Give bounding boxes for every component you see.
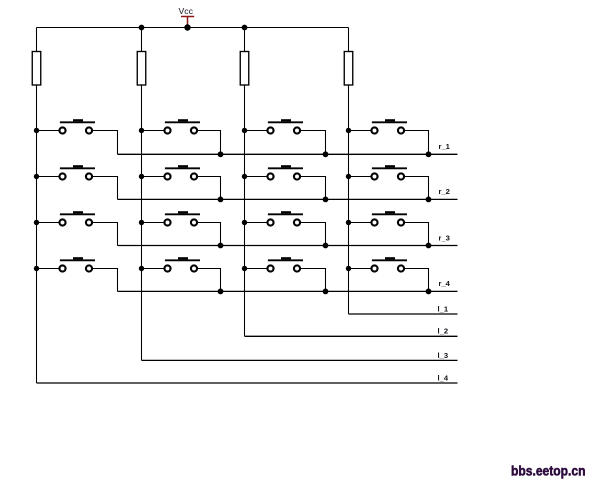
pushbutton S15 (row 4, col 3)	[242, 257, 326, 291]
net r_4 wire	[118, 290, 458, 292]
junction rail-Vcc	[184, 24, 190, 30]
pin 2 of S11	[294, 219, 300, 225]
actuator bar of S6	[165, 167, 200, 169]
resistor R3	[240, 52, 249, 86]
pin 2 of S7	[294, 173, 300, 179]
junction col4-S16	[346, 266, 351, 271]
plunger of S3	[281, 119, 291, 121]
actuator bar of S9	[60, 213, 95, 215]
plunger of S16	[385, 257, 395, 259]
wire S4 right lead to net r_1	[404, 131, 428, 155]
svg-text:Vcc: Vcc	[179, 6, 194, 16]
plunger of S1	[73, 119, 83, 121]
pin 2 of S13	[86, 265, 92, 271]
svg-text:l_4: l_4	[438, 373, 449, 382]
wire S7 left lead	[245, 176, 268, 178]
pushbutton S6 (row 2, col 2)	[139, 165, 221, 199]
pin 1 of S12	[371, 219, 377, 225]
junction r_3 col4 drop	[426, 243, 432, 249]
plunger of S5	[73, 165, 83, 167]
junction r_1 col3 drop	[323, 151, 329, 157]
junction col1-S9	[34, 220, 39, 225]
junction r_2 col4 drop	[426, 197, 432, 203]
wire S3 right lead to net r_1	[300, 131, 325, 155]
pin 1 of S8	[371, 173, 377, 179]
pushbutton S9 (row 3, col 1)	[34, 211, 118, 245]
pushbutton S12 (row 3, col 4)	[346, 211, 429, 245]
actuator bar of S7	[268, 167, 303, 169]
wire S8 left lead	[349, 176, 372, 178]
pin 1 of S1	[59, 127, 65, 133]
junction r_2 col3 drop	[323, 197, 329, 203]
wire S16 left lead	[349, 268, 372, 270]
plunger of S13	[73, 257, 83, 259]
junction col4-S4	[346, 128, 351, 133]
pin 2 of S3	[294, 127, 300, 133]
junction col2-S6	[139, 174, 144, 179]
actuator bar of S14	[165, 259, 200, 261]
junction col3-S3	[242, 128, 247, 133]
pin 1 of S15	[267, 265, 273, 271]
plunger of S4	[385, 119, 395, 121]
pin 2 of S1	[86, 127, 92, 133]
pin 2 of S15	[294, 265, 300, 271]
actuator bar of S3	[268, 121, 303, 123]
actuator bar of S11	[268, 213, 303, 215]
pin 1 of S9	[59, 219, 65, 225]
svg-text:r_4: r_4	[439, 279, 451, 288]
pin 1 of S13	[59, 265, 65, 271]
junction col2-S10	[139, 220, 144, 225]
actuator bar of S2	[165, 121, 200, 123]
net l_4 wire	[37, 382, 458, 384]
wire column 1 (rail to l_4)	[36, 28, 38, 384]
pin 1 of S3	[267, 127, 273, 133]
actuator bar of S1	[60, 121, 95, 123]
pin 1 of S2	[164, 127, 170, 133]
wire S5 left lead	[37, 176, 60, 178]
pin 2 of S10	[191, 219, 197, 225]
actuator bar of S8	[372, 167, 407, 169]
svg-text:l_3: l_3	[438, 351, 449, 360]
wire S4 left lead	[349, 130, 372, 132]
junction col2-S14	[139, 266, 144, 271]
wire S13 right lead to net r_4	[92, 269, 117, 292]
actuator bar of S15	[268, 259, 303, 261]
junction col3-S11	[242, 220, 247, 225]
junction r_4 col2 drop	[218, 289, 224, 295]
plunger of S12	[385, 211, 395, 213]
plunger of S9	[73, 211, 83, 213]
wire S14 left lead	[142, 268, 165, 270]
pin 2 of S8	[398, 173, 404, 179]
pin 1 of S7	[267, 173, 273, 179]
junction r_3 col2 drop	[218, 243, 224, 249]
actuator bar of S12	[372, 213, 407, 215]
pin 1 of S10	[164, 219, 170, 225]
wire S11 left lead	[245, 222, 268, 224]
pushbutton S10 (row 3, col 2)	[139, 211, 221, 245]
pushbutton S2 (row 1, col 2)	[139, 119, 221, 154]
actuator bar of S16	[372, 259, 407, 261]
pin 1 of S4	[371, 127, 377, 133]
net l_2 wire	[245, 335, 458, 337]
svg-text:l_1: l_1	[438, 304, 449, 313]
pin 2 of S9	[86, 219, 92, 225]
plunger of S11	[281, 211, 291, 213]
wire S15 right lead to net r_4	[300, 269, 325, 292]
svg-text:r_3: r_3	[439, 233, 450, 242]
junction r_4 col3 drop	[323, 289, 329, 295]
pin 2 of S5	[86, 173, 92, 179]
resistor R2	[137, 52, 146, 86]
wire column 3 (rail to l_2)	[244, 28, 246, 337]
wire S10 right lead to net r_3	[197, 223, 220, 246]
wire S1 left lead	[37, 130, 60, 132]
pin 1 of S16	[371, 265, 377, 271]
pin 2 of S14	[191, 265, 197, 271]
wire S1 right lead to net r_1	[92, 131, 117, 155]
wire S11 right lead to net r_3	[300, 223, 325, 246]
plunger of S7	[281, 165, 291, 167]
pushbutton S14 (row 4, col 2)	[139, 257, 221, 291]
net l_1 wire	[349, 313, 458, 315]
pin 1 of S14	[164, 265, 170, 271]
svg-text:r_1: r_1	[439, 142, 451, 151]
junction rail-col3	[242, 25, 248, 31]
actuator bar of S13	[60, 259, 95, 261]
wire S6 right lead to net r_2	[197, 177, 220, 200]
power symbol Vcc	[179, 6, 195, 27]
net r_3 wire	[118, 245, 458, 247]
plunger of S2	[178, 119, 188, 121]
wire S13 left lead	[37, 268, 60, 270]
pushbutton S16 (row 4, col 4)	[346, 257, 429, 291]
svg-text:bbs.eetop.cn: bbs.eetop.cn	[511, 463, 586, 479]
net r_1 wire	[118, 153, 458, 155]
pin 2 of S6	[191, 173, 197, 179]
junction col3-S15	[242, 266, 247, 271]
junction col1-S1	[34, 128, 39, 133]
wire column 4 (rail to l_1)	[348, 28, 350, 315]
actuator bar of S4	[372, 121, 407, 123]
pushbutton S13 (row 4, col 1)	[34, 257, 118, 291]
junction col2-S2	[139, 128, 144, 133]
wire S9 right lead to net r_3	[92, 223, 117, 246]
junction col4-S8	[346, 174, 351, 179]
wire S12 right lead to net r_3	[404, 223, 428, 246]
actuator bar of S10	[165, 213, 200, 215]
junction r_2 col2 drop	[218, 197, 224, 203]
pushbutton S7 (row 2, col 3)	[242, 165, 326, 199]
pushbutton S4 (row 1, col 4)	[346, 119, 429, 154]
pin 1 of S5	[59, 173, 65, 179]
pin 1 of S11	[267, 219, 273, 225]
junction r_3 col3 drop	[323, 243, 329, 249]
wire S16 right lead to net r_4	[404, 269, 428, 292]
net l_3 wire	[142, 359, 458, 361]
net r_2 wire	[118, 198, 458, 200]
junction col4-S12	[346, 220, 351, 225]
wire S8 right lead to net r_2	[404, 177, 428, 200]
plunger of S15	[281, 257, 291, 259]
pin 2 of S4	[398, 127, 404, 133]
pushbutton S11 (row 3, col 3)	[242, 211, 326, 245]
pin 2 of S2	[191, 127, 197, 133]
plunger of S10	[178, 211, 188, 213]
pin 2 of S16	[398, 265, 404, 271]
resistor R4	[344, 52, 353, 86]
pushbutton S1 (row 1, col 1)	[34, 119, 118, 154]
junction col3-S7	[242, 174, 247, 179]
resistor R1	[32, 52, 41, 86]
wire S2 right lead to net r_1	[197, 131, 220, 155]
wire column 2 (rail to l_3)	[141, 28, 143, 361]
plunger of S8	[385, 165, 395, 167]
wire S14 right lead to net r_4	[197, 269, 220, 292]
svg-text:l_2: l_2	[438, 327, 449, 336]
pushbutton S5 (row 2, col 1)	[34, 165, 118, 199]
wire S6 left lead	[142, 176, 165, 178]
wire Vcc rail	[37, 27, 349, 29]
wire S3 left lead	[245, 130, 268, 132]
plunger of S6	[178, 165, 188, 167]
pushbutton S8 (row 2, col 4)	[346, 165, 429, 199]
wire S9 left lead	[37, 222, 60, 224]
junction col1-S13	[34, 266, 39, 271]
junction rail-col2	[139, 25, 145, 31]
pin 1 of S6	[164, 173, 170, 179]
wire S7 right lead to net r_2	[300, 177, 325, 200]
wire S5 right lead to net r_2	[92, 177, 117, 200]
wire S2 left lead	[142, 130, 165, 132]
wire S12 left lead	[349, 222, 372, 224]
pin 2 of S12	[398, 219, 404, 225]
wire S15 left lead	[245, 268, 268, 270]
wire S10 left lead	[142, 222, 165, 224]
pushbutton S3 (row 1, col 3)	[242, 119, 326, 154]
junction col1-S5	[34, 174, 39, 179]
junction r_1 col4 drop	[426, 151, 432, 157]
junction r_4 col4 drop	[426, 289, 432, 295]
junction r_1 col2 drop	[218, 151, 224, 157]
svg-text:r_2: r_2	[439, 187, 450, 196]
plunger of S14	[178, 257, 188, 259]
actuator bar of S5	[60, 167, 95, 169]
